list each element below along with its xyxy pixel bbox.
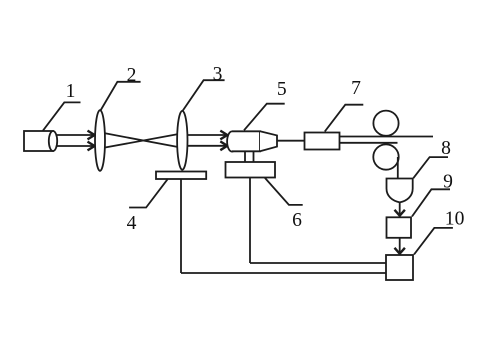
svg-text:2: 2 (127, 65, 137, 86)
leader line label 8 (413, 157, 448, 178)
objective 5 end cap ellipse (227, 131, 237, 151)
wire (box 6 return to box 10) (250, 262, 386, 264)
svg-text:5: 5 (277, 79, 287, 100)
fiber line lower (box 7 to lower spool) (340, 142, 398, 144)
laser source 1 end cap ellipse (49, 131, 57, 151)
spool lower circle (373, 144, 398, 169)
spool upper circle (373, 111, 398, 136)
wire (lower spool down to detector 8) (397, 157, 399, 179)
box 10 (386, 255, 413, 280)
leader line label 9 (412, 189, 450, 216)
leader line label 7 (325, 105, 364, 132)
svg-text:8: 8 (441, 138, 451, 159)
leader line label 5 (244, 104, 285, 131)
wire (objective 5 to box 7) (277, 140, 305, 142)
laser source 1 (cylinder body) (24, 131, 53, 151)
box 7 (305, 133, 340, 150)
fiber line upper (box 7 to right end) (340, 136, 434, 138)
leader line label 10 (414, 228, 453, 255)
box 6 (226, 162, 276, 178)
lens 3 (ellipse) (177, 111, 187, 170)
svg-text:4: 4 (127, 213, 137, 234)
detector 8 (funnel) (387, 179, 413, 203)
svg-text:9: 9 (443, 171, 453, 192)
stand right line (5 to 6) (253, 151, 255, 162)
beam arrow upper (laser to lens 2) (57, 131, 95, 140)
wire (box 6 down) (249, 178, 251, 264)
leader line label 2 (101, 82, 141, 111)
leader line label 4 (129, 179, 167, 207)
beam arrow upper (lens 3 to objective 5) (188, 131, 228, 140)
svg-text:10: 10 (445, 208, 465, 229)
lens 2 (ellipse) (95, 110, 105, 171)
wire (stage 4 return to box 10) (181, 272, 386, 274)
box 9 (387, 217, 412, 238)
beam arrow lower (lens 3 to objective 5) (188, 141, 228, 150)
leader line label 3 (183, 80, 225, 111)
beam arrow lower (laser to lens 2) (57, 142, 95, 151)
crossing beam (upper-left to lower-right) (105, 133, 177, 147)
objective 5 body (232, 131, 260, 151)
wire (stage 4 down) (180, 179, 182, 273)
leader line label 1 (43, 102, 81, 130)
svg-text:7: 7 (351, 78, 361, 99)
svg-text:3: 3 (213, 64, 223, 85)
svg-text:6: 6 (292, 210, 302, 231)
leader line label 6 (265, 178, 303, 205)
arrow (box 9 to box 10) (395, 238, 405, 254)
stage 4 (platform) (156, 172, 206, 180)
crossing beam (lower-left to upper-right) (105, 134, 177, 147)
stand left line (5 to 6) (244, 151, 246, 162)
svg-text:1: 1 (66, 81, 76, 102)
arrow (detector 8 to box 9) (395, 202, 405, 215)
objective 5 cone (260, 131, 277, 151)
